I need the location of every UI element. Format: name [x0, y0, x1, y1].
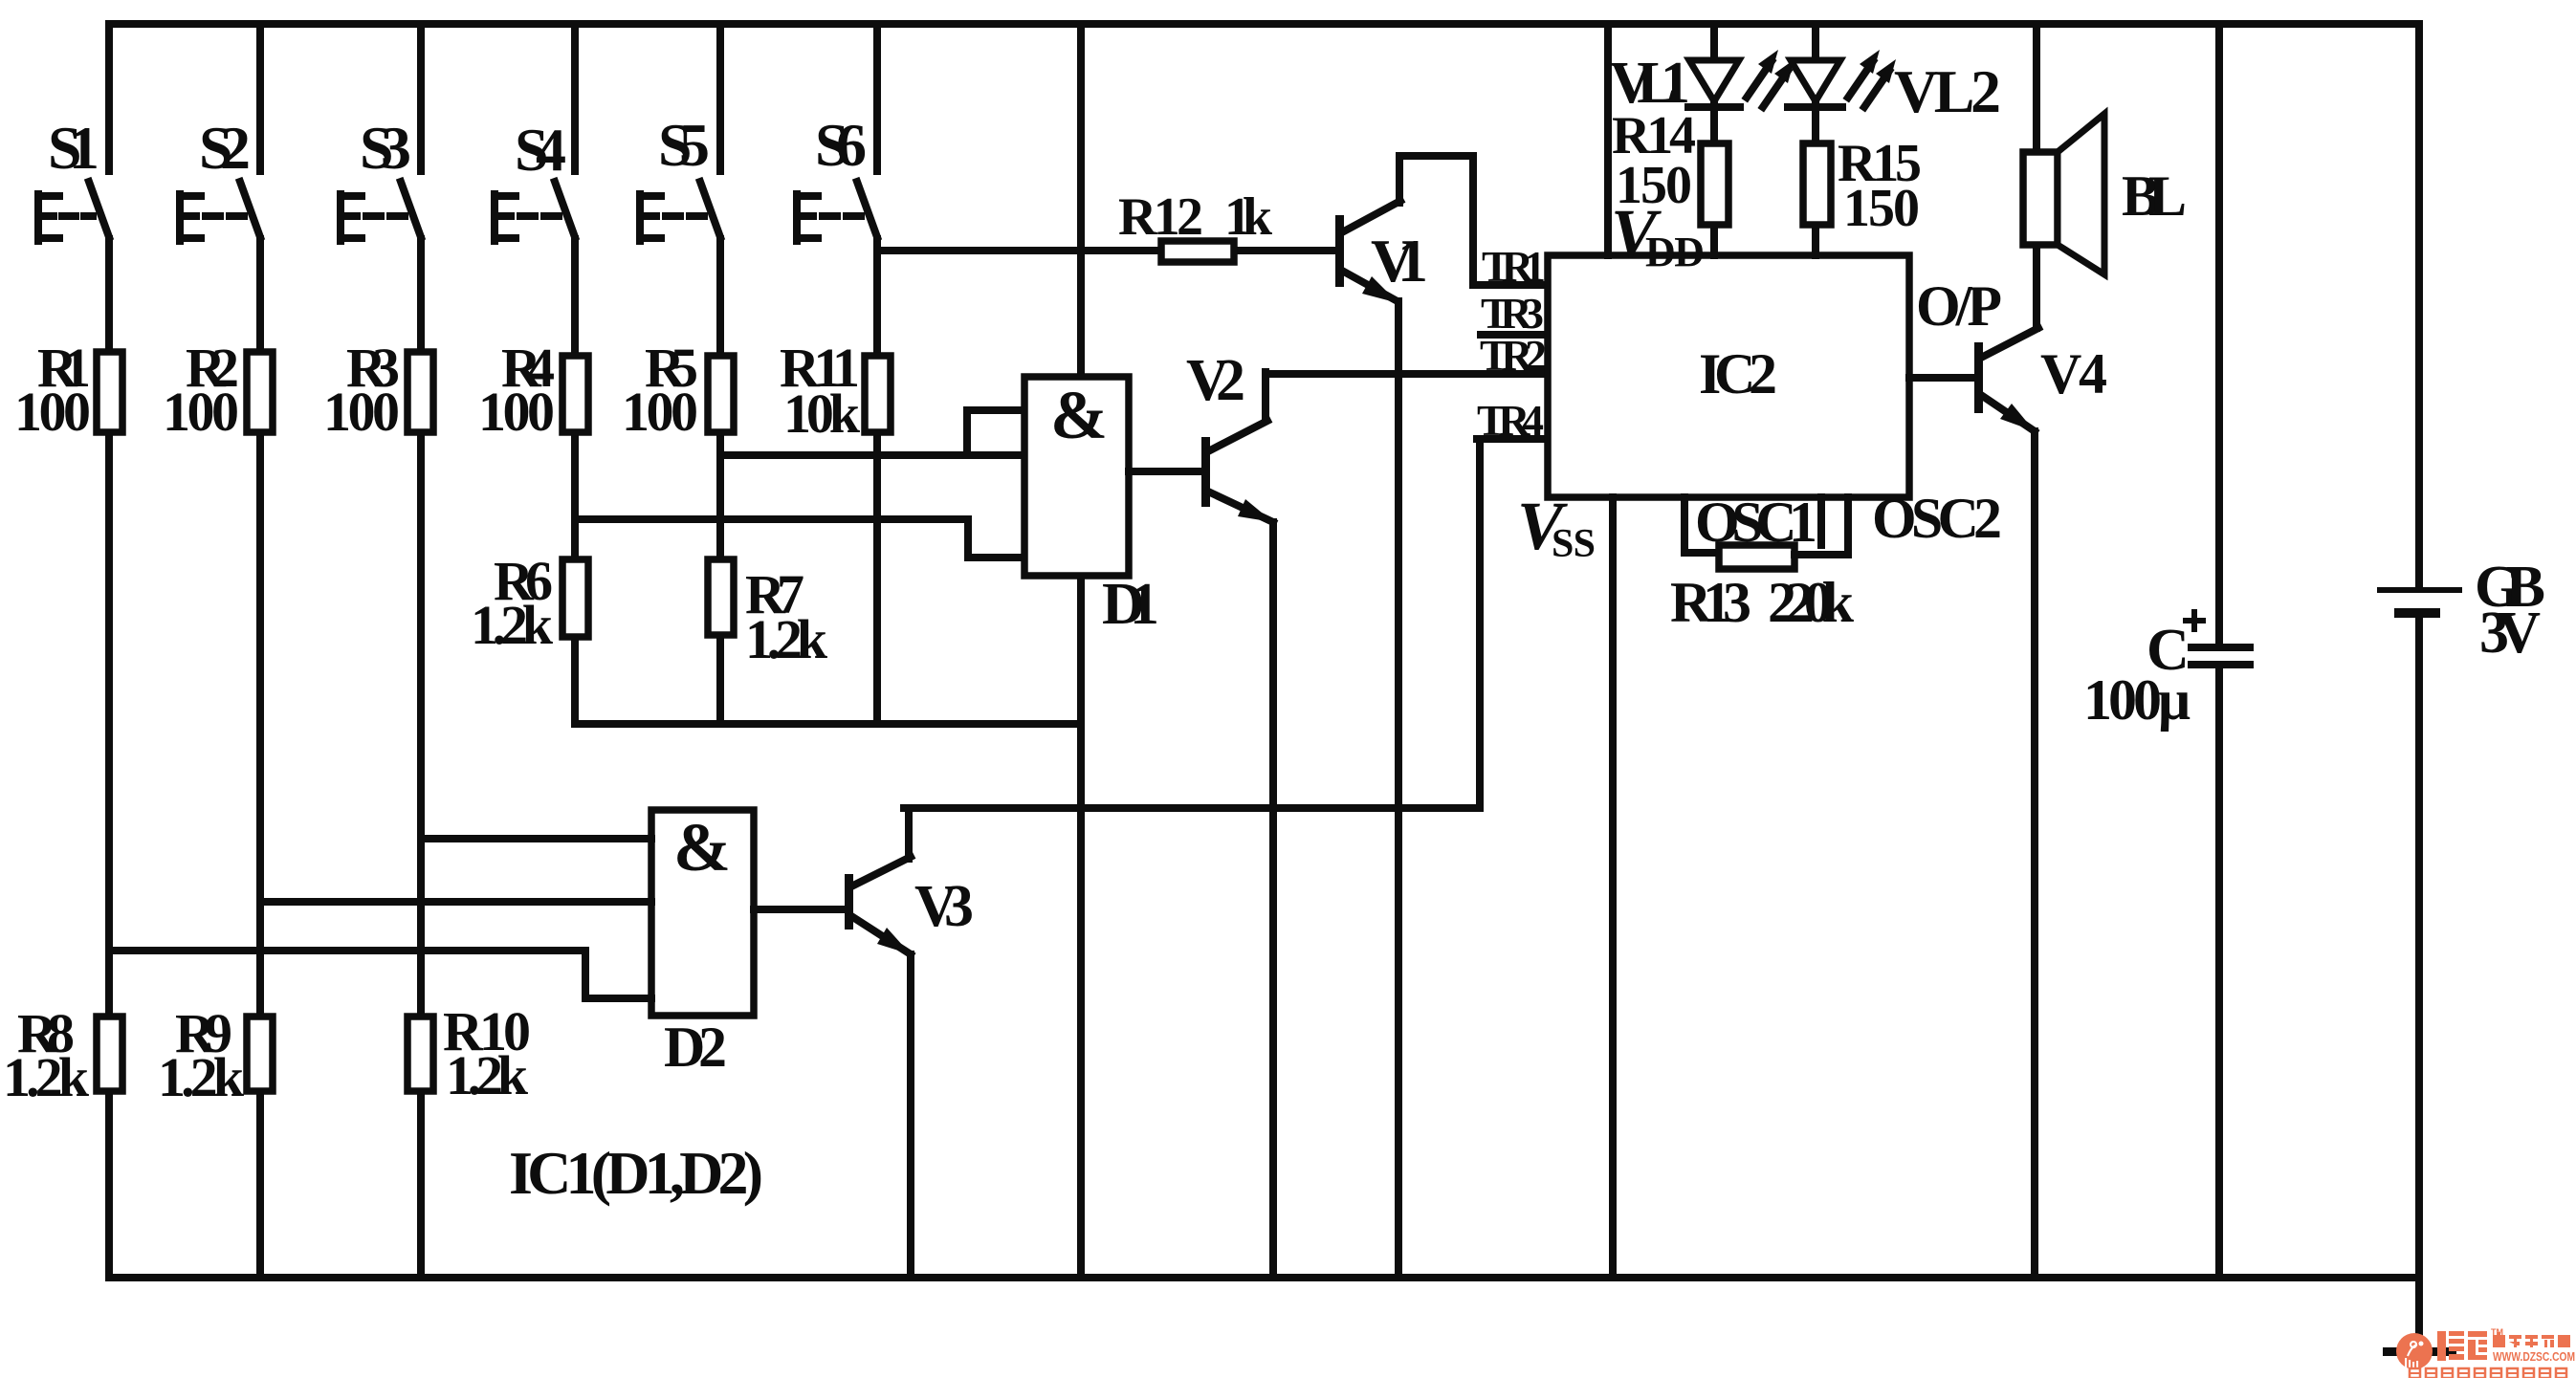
wire D2 input 3 from S1 column: [109, 951, 651, 998]
svg-text:100: 100: [478, 381, 555, 443]
battery negative terminal bar: [2383, 1347, 2456, 1356]
svg-text:VL2: VL2: [1894, 57, 2001, 125]
switch S6: [797, 111, 877, 241]
wire D1 bottom pin down to frame bottom: [1077, 576, 1085, 1278]
wire V1 emitter down to frame bottom: [1395, 301, 1402, 1278]
wire V1 collector bracket to IC2 TR1: [1399, 156, 1548, 285]
IC IC2: [1548, 255, 1909, 497]
svg-text:S3: S3: [360, 114, 411, 182]
transistor V3: [845, 857, 974, 954]
svg-text:150: 150: [1616, 156, 1692, 215]
wire D2 input 1 from S3 column: [421, 835, 651, 842]
battery GB: [2377, 555, 2545, 666]
watermark logo circle: [2396, 1333, 2433, 1369]
resistor R7: [708, 559, 828, 670]
wire OSC2 pin stub: [1794, 497, 1848, 555]
wire V4 emitter down to frame bottom: [2031, 431, 2038, 1278]
wire D1 top pin to frame top: [1077, 24, 1085, 377]
svg-text:D1: D1: [1102, 572, 1159, 637]
resistor R13: [1670, 545, 1855, 634]
label VDD: [1611, 195, 1705, 275]
switch S1: [38, 114, 109, 241]
watermark text 维库: [2437, 1331, 2487, 1361]
resistor R10: [407, 1000, 531, 1106]
wire speaker column from frame top: [2033, 24, 2040, 152]
transistor V4: [1974, 328, 2107, 431]
svg-text:D2: D2: [664, 1016, 727, 1079]
wire D2 input 2 from S2 column: [260, 898, 651, 906]
wire VL1 / R14 column: [1710, 24, 1718, 255]
D1 input stub upper: [967, 410, 1024, 455]
svg-text:IC2: IC2: [1699, 342, 1777, 405]
frame right border / battery column wire: [2415, 24, 2423, 1355]
svg-text:S2: S2: [199, 114, 251, 182]
wire V3 emitter down to frame bottom: [907, 954, 914, 1278]
LED VL1 emission arrows: [1747, 50, 1794, 107]
wire bottom of switch section: [575, 720, 1081, 728]
watermark text 电子市场网: [2493, 1332, 2570, 1347]
resistor R2: [163, 337, 273, 443]
svg-text:SS: SS: [1552, 522, 1596, 566]
svg-text:100: 100: [323, 381, 400, 443]
svg-text:&: &: [673, 809, 731, 886]
svg-text:100: 100: [163, 381, 239, 443]
svg-text:DD: DD: [1645, 229, 1705, 275]
svg-text:WWW.DZSC.COM: WWW.DZSC.COM: [2493, 1349, 2575, 1364]
switch S5: [640, 111, 720, 241]
and-gate D2: [651, 809, 754, 1079]
wire S2 column: [256, 24, 264, 1278]
wire IC2 TR4 to V3 collector: [904, 439, 1480, 808]
svg-text:V3: V3: [914, 874, 974, 939]
svg-text:S4: S4: [515, 116, 566, 184]
svg-text:TR1: TR1: [1482, 242, 1546, 291]
svg-text:100μ: 100μ: [2083, 668, 2191, 732]
wire capacitor column: [2215, 24, 2223, 1278]
wire VDD pin to frame top: [1604, 24, 1612, 255]
svg-text:R13: R13: [1670, 571, 1751, 634]
svg-text:220k: 220k: [1768, 571, 1855, 634]
wire node A: R5/R11 bottoms to D1 input: [720, 451, 1024, 459]
svg-text:1.2k: 1.2k: [3, 1046, 90, 1108]
svg-text:&: &: [1050, 377, 1108, 453]
LED VL1: [1610, 51, 1740, 116]
wire D1 output to V2 base: [1129, 468, 1201, 475]
resistor R15: [1803, 134, 1922, 238]
wire D2 output to V3 base: [754, 906, 845, 913]
wire V3 collector riser: [905, 808, 913, 859]
svg-text:100: 100: [14, 381, 91, 443]
transistor V1: [1335, 201, 1428, 303]
label pin TR3 with underline: [1481, 289, 1548, 338]
svg-text:100: 100: [622, 381, 698, 443]
wire V2 collector to IC2 TR2: [1266, 372, 1548, 419]
watermark slogan 专业电子元器件交易网站: [2410, 1368, 2566, 1378]
svg-text:1.2k: 1.2k: [446, 1044, 529, 1106]
wire VL2 / R15 column: [1812, 24, 1819, 255]
wire node B: R4/R6 junction to D1 lower input: [575, 519, 1024, 558]
wire S6 column: [873, 24, 881, 724]
LED VL2: [1788, 57, 2001, 125]
svg-text:IC1(D1,D2): IC1(D1,D2): [509, 1139, 763, 1207]
wire S4 column: [571, 24, 579, 724]
resistor R9: [158, 1002, 273, 1108]
svg-text:TR2: TR2: [1480, 331, 1547, 380]
svg-text:S6: S6: [815, 111, 867, 179]
switch S3: [341, 114, 421, 241]
and-gate D1: [1024, 377, 1159, 637]
frame bottom wire: [109, 1274, 2419, 1281]
resistor R8: [3, 1002, 122, 1108]
svg-text:R12: R12: [1118, 187, 1203, 247]
wire S5 column: [716, 24, 724, 724]
capacitor C: [2083, 609, 2254, 732]
switch S2: [180, 114, 260, 241]
svg-text:S1: S1: [48, 114, 99, 182]
label VSS: [1517, 488, 1596, 566]
transistor V2: [1186, 348, 1273, 522]
wire IC2 O/P to V4 base: [1909, 374, 1974, 382]
resistor R11: [780, 337, 891, 445]
svg-text:1.2k: 1.2k: [158, 1046, 245, 1108]
wire speaker to V4 collector: [2033, 245, 2040, 328]
svg-text:1k: 1k: [1224, 187, 1273, 247]
wire OSC1 pin stub: [1684, 497, 1719, 553]
LED VL2 emission arrows: [1848, 50, 1896, 107]
frame top wire: [109, 20, 2419, 28]
switch S4: [495, 116, 575, 241]
label OSC1 box right edge: [1817, 497, 1825, 545]
svg-text:V2: V2: [1186, 348, 1245, 413]
svg-text:OSC2: OSC2: [1872, 487, 2002, 550]
resistor R6: [471, 550, 588, 656]
svg-text:150: 150: [1843, 179, 1920, 238]
svg-text:V1: V1: [1371, 227, 1428, 295]
wire VSS pin to frame bottom: [1609, 497, 1617, 1278]
svg-text:V4: V4: [2040, 342, 2107, 405]
svg-text:1.2k: 1.2k: [471, 594, 554, 656]
svg-text:10k: 10k: [783, 383, 861, 445]
frame left border / S1 column wire: [105, 24, 113, 1278]
resistor R5: [622, 337, 734, 443]
resistor R12: [1118, 187, 1273, 262]
wire S3 column: [417, 24, 425, 1278]
speaker BL: [2023, 114, 2187, 274]
resistor R3: [323, 337, 433, 443]
svg-text:1.2k: 1.2k: [745, 608, 828, 670]
svg-text:S5: S5: [658, 111, 710, 179]
resistor R1: [14, 337, 122, 443]
wire V2 emitter down to frame bottom: [1269, 522, 1277, 1278]
resistor R4: [478, 337, 588, 443]
label pin TR4 with underline: [1477, 396, 1548, 445]
svg-text:O/P: O/P: [1916, 274, 2002, 338]
svg-text:BL: BL: [2122, 164, 2187, 228]
wire S6 to R12 to V1 base: [877, 247, 1336, 254]
svg-text:3V: 3V: [2479, 601, 2541, 666]
resistor R14: [1612, 106, 1728, 225]
